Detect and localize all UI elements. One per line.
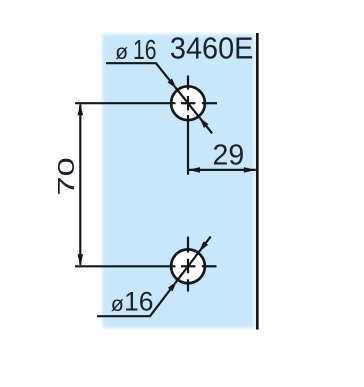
- hole B vertical centerline (top long segment): [187, 237, 189, 253]
- hole A vertical centerline (bottom long segment / extension to 29 dim): [187, 115, 189, 175]
- glass panel (light blue): [102, 34, 254, 328]
- panel right edge line: [256, 33, 259, 330]
- arrowhead hole B upper-right (on diameter leader): [199, 241, 208, 252]
- svg-text:29: 29: [213, 140, 245, 172]
- svg-text:70: 70: [53, 157, 79, 195]
- svg-text:3460E: 3460E: [170, 32, 254, 66]
- arrowhead hole A lower-right (on diameter leader): [199, 118, 208, 128]
- hole B horizontal centerline (center dash): [181, 265, 195, 267]
- hole B horizontal centerline (left long segment / extension): [76, 265, 175, 267]
- svg-text:16: 16: [133, 34, 157, 65]
- arrowhead 70-dim bottom: [78, 254, 84, 266]
- hole B circle (ø16): [171, 249, 205, 283]
- hole A horizontal centerline (right long segment): [202, 102, 217, 104]
- hole B vertical centerline (center dash): [187, 259, 189, 273]
- arrowhead hole A upper-left (on diameter leader): [168, 79, 177, 89]
- hole A circle (ø16): [171, 86, 205, 120]
- hole B diameter leader line (from label through circle): [97, 237, 211, 317]
- hole B vertical centerline (bottom long segment): [187, 279, 189, 291]
- svg-text:ø: ø: [111, 292, 124, 316]
- hole A vertical centerline (center dash): [187, 96, 189, 110]
- dimension line 70 (vertical): [79, 105, 81, 265]
- hole A diameter leader line (from label through circle): [106, 63, 212, 133]
- hole A horizontal centerline (center dash): [181, 102, 195, 104]
- svg-text:ø: ø: [115, 41, 128, 64]
- dimension line 29 (horizontal): [188, 169, 256, 171]
- arrowhead 29-dim left: [188, 167, 200, 173]
- arrowhead 29-dim right: [244, 167, 256, 173]
- arrowhead hole B lower-left (on diameter leader): [168, 281, 177, 292]
- hole A horizontal centerline (left long segment / extension): [76, 102, 175, 104]
- arrowhead 70-dim top: [78, 103, 84, 115]
- svg-text:16: 16: [124, 286, 153, 316]
- hole B horizontal centerline (right long segment): [202, 265, 217, 267]
- hole A vertical centerline (top long segment): [187, 76, 189, 90]
